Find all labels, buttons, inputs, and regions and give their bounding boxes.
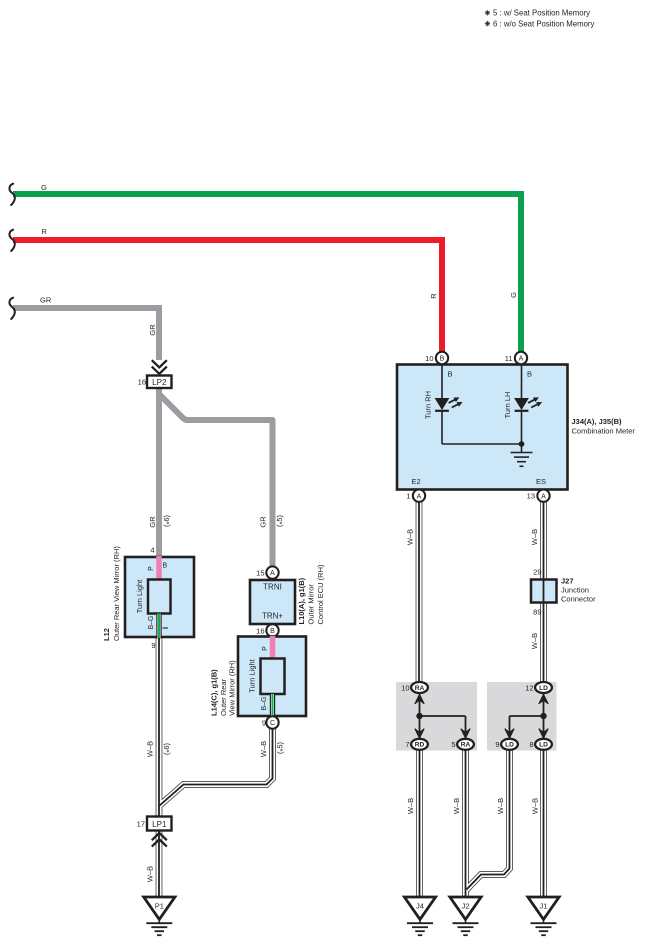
svg-text:B–G: B–G	[148, 615, 155, 629]
svg-text:LD: LD	[505, 742, 514, 749]
svg-text:9: 9	[262, 719, 266, 728]
svg-text:12: 12	[525, 683, 533, 692]
svg-text:A: A	[541, 493, 546, 500]
svg-text:LP1: LP1	[152, 820, 167, 829]
svg-text:E2: E2	[412, 477, 421, 486]
svg-text:RA: RA	[415, 685, 425, 692]
svg-text:L14(C), g1(B): L14(C), g1(B)	[210, 669, 219, 716]
svg-text:B: B	[448, 370, 453, 379]
svg-text:16: 16	[138, 377, 146, 386]
svg-text:8: 8	[529, 740, 533, 749]
svg-text:B: B	[527, 370, 532, 379]
svg-text:17: 17	[137, 820, 145, 829]
svg-text:5: 5	[451, 740, 455, 749]
svg-text:5 : w/ Seat Position Memory: 5 : w/ Seat Position Memory	[493, 9, 590, 18]
svg-text:W–B: W–B	[406, 529, 415, 545]
svg-text:GR: GR	[148, 324, 157, 336]
svg-text:10: 10	[425, 354, 433, 363]
svg-text:Turn Light: Turn Light	[248, 658, 257, 692]
svg-text:(*5): (*5)	[275, 514, 286, 527]
svg-text:Turn Light: Turn Light	[135, 579, 144, 613]
svg-text:W–B: W–B	[145, 741, 154, 757]
svg-text:W–B: W–B	[452, 798, 461, 814]
svg-text:Turn LH: Turn LH	[503, 392, 512, 419]
svg-text:TRNI: TRNI	[263, 583, 282, 592]
svg-text:9: 9	[151, 641, 155, 650]
svg-text:GR: GR	[148, 516, 157, 528]
svg-text:89: 89	[533, 608, 541, 617]
svg-text:Combination Meter: Combination Meter	[572, 427, 636, 436]
svg-text:G: G	[509, 292, 518, 298]
svg-text:13: 13	[527, 492, 535, 501]
svg-text:7: 7	[405, 740, 409, 749]
svg-text:10: 10	[401, 683, 409, 692]
svg-text:P1: P1	[155, 901, 164, 910]
svg-text:LD: LD	[539, 742, 548, 749]
svg-text:16: 16	[256, 626, 264, 635]
svg-text:W–B: W–B	[530, 633, 539, 649]
svg-text:GR: GR	[40, 296, 52, 305]
svg-text:Outer Rear View Mirror (RH): Outer Rear View Mirror (RH)	[112, 546, 121, 641]
svg-text:A: A	[417, 493, 422, 500]
svg-text:J34(A), J35(B): J34(A), J35(B)	[572, 417, 623, 426]
svg-text:6 : w/o Seat Position Memory: 6 : w/o Seat Position Memory	[493, 19, 595, 28]
svg-text:11: 11	[505, 354, 513, 363]
svg-text:(*5): (*5)	[276, 741, 287, 754]
svg-text:ES: ES	[536, 477, 546, 486]
svg-text:A: A	[270, 570, 275, 577]
svg-text:R: R	[429, 293, 438, 299]
svg-text:A: A	[519, 356, 524, 363]
svg-text:P: P	[262, 646, 269, 651]
svg-text:9: 9	[495, 740, 499, 749]
svg-text:J4: J4	[416, 901, 424, 910]
svg-text:L10(A), g1(B): L10(A), g1(B)	[297, 577, 306, 624]
svg-text:LP2: LP2	[152, 378, 167, 387]
svg-text:View Mirror (RH): View Mirror (RH)	[228, 660, 237, 716]
svg-text:B: B	[163, 563, 168, 570]
svg-text:1: 1	[406, 492, 410, 501]
svg-text:Junction: Junction	[561, 586, 589, 595]
svg-text:W–B: W–B	[531, 798, 540, 814]
svg-text:J27: J27	[561, 576, 574, 585]
svg-text:RD: RD	[415, 742, 425, 749]
svg-text:29: 29	[533, 568, 541, 577]
svg-text:Outer Mirror: Outer Mirror	[307, 584, 316, 625]
svg-text:W–B: W–B	[530, 529, 539, 545]
svg-text:R: R	[42, 227, 48, 236]
svg-text:(*6): (*6)	[162, 742, 173, 755]
svg-text:GR: GR	[259, 516, 268, 528]
svg-text:(*6): (*6)	[162, 514, 173, 527]
svg-text:4: 4	[150, 546, 154, 555]
svg-text:C: C	[270, 720, 275, 727]
svg-text:RA: RA	[461, 742, 471, 749]
svg-text:J1: J1	[540, 901, 548, 910]
svg-text:W–B: W–B	[145, 866, 154, 882]
svg-text:TRN+: TRN+	[262, 612, 283, 621]
svg-text:W–B: W–B	[406, 798, 415, 814]
svg-text:B: B	[440, 356, 445, 363]
svg-text:L12: L12	[102, 628, 111, 641]
svg-text:B: B	[270, 628, 275, 635]
svg-text:W–B: W–B	[259, 741, 268, 757]
svg-text:B–G: B–G	[261, 696, 268, 710]
svg-text:J2: J2	[462, 901, 470, 910]
svg-text:LD: LD	[539, 685, 548, 692]
svg-text:G: G	[41, 183, 47, 192]
svg-text:Connector: Connector	[561, 595, 596, 604]
svg-text:Turn RH: Turn RH	[424, 391, 433, 419]
svg-text:Control ECU (RH): Control ECU (RH)	[316, 564, 325, 625]
svg-text:P: P	[148, 566, 155, 571]
svg-text:W–B: W–B	[496, 798, 505, 814]
svg-text:15: 15	[256, 569, 264, 578]
